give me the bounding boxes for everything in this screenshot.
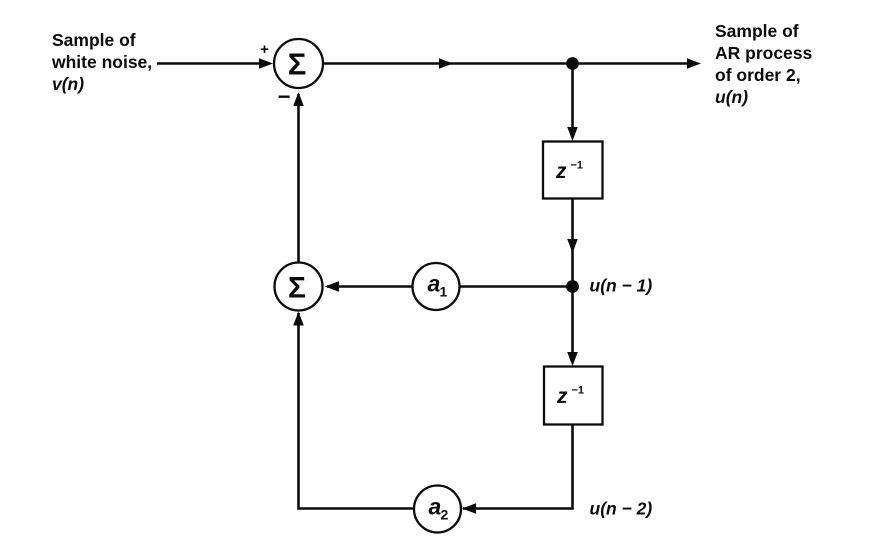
wire: Z1 down to node u(n-1) with mid arrowhead (567, 199, 578, 285)
svg-text:2: 2 (441, 507, 449, 523)
wire: node down into delay Z1 (567, 64, 578, 142)
svg-text:1: 1 (440, 284, 448, 300)
svg-text:+: + (260, 41, 269, 58)
gain a1 (413, 263, 460, 310)
svg-text:−1: −1 (572, 385, 585, 397)
label: Sample of AR process of order 2, u(n) (715, 21, 813, 107)
delay block Z1 (543, 142, 603, 199)
svg-text:AR process: AR process (715, 43, 813, 63)
svg-text:−1: −1 (571, 160, 584, 172)
wire: input v(n) into summer S1 (157, 58, 273, 69)
gain a2 (414, 486, 461, 533)
node: pickoff on output line (566, 57, 579, 70)
label: Sample of white noise, v(n) (51, 30, 152, 94)
wire: S2 up into minus input of S1 (293, 92, 304, 263)
svg-text:of order 2,: of order 2, (715, 65, 801, 85)
svg-text:u(n): u(n) (715, 87, 748, 107)
svg-text:Sample of: Sample of (715, 21, 799, 41)
svg-text:u(n − 1): u(n − 1) (590, 276, 653, 296)
svg-text:Σ: Σ (288, 272, 306, 305)
wire: node u(n-1) left into gain a1 (460, 285, 567, 288)
node u(n-1) (566, 280, 579, 293)
svg-text:v(n): v(n) (52, 74, 84, 94)
svg-text:Sample of: Sample of (52, 30, 136, 50)
wire: Z2 down then left into gain a2 (462, 425, 573, 514)
wire: node u(n-1) down into delay Z2 (567, 287, 578, 367)
svg-text:−: − (278, 84, 291, 109)
delay block Z2 (544, 367, 603, 425)
wire: a2 output left then up into summer S2 (293, 312, 414, 509)
svg-text:z: z (556, 385, 568, 408)
summer S1 (274, 39, 323, 88)
svg-text:white noise,: white noise, (51, 52, 152, 72)
wire: S1 output to u(n) with mid arrowhead (323, 58, 701, 69)
svg-text:u(n − 2): u(n − 2) (590, 499, 653, 519)
svg-text:z: z (555, 160, 567, 183)
wire: a1 output into summer S2 (325, 281, 413, 292)
svg-text:Σ: Σ (288, 47, 307, 82)
summer S2 (275, 263, 323, 311)
